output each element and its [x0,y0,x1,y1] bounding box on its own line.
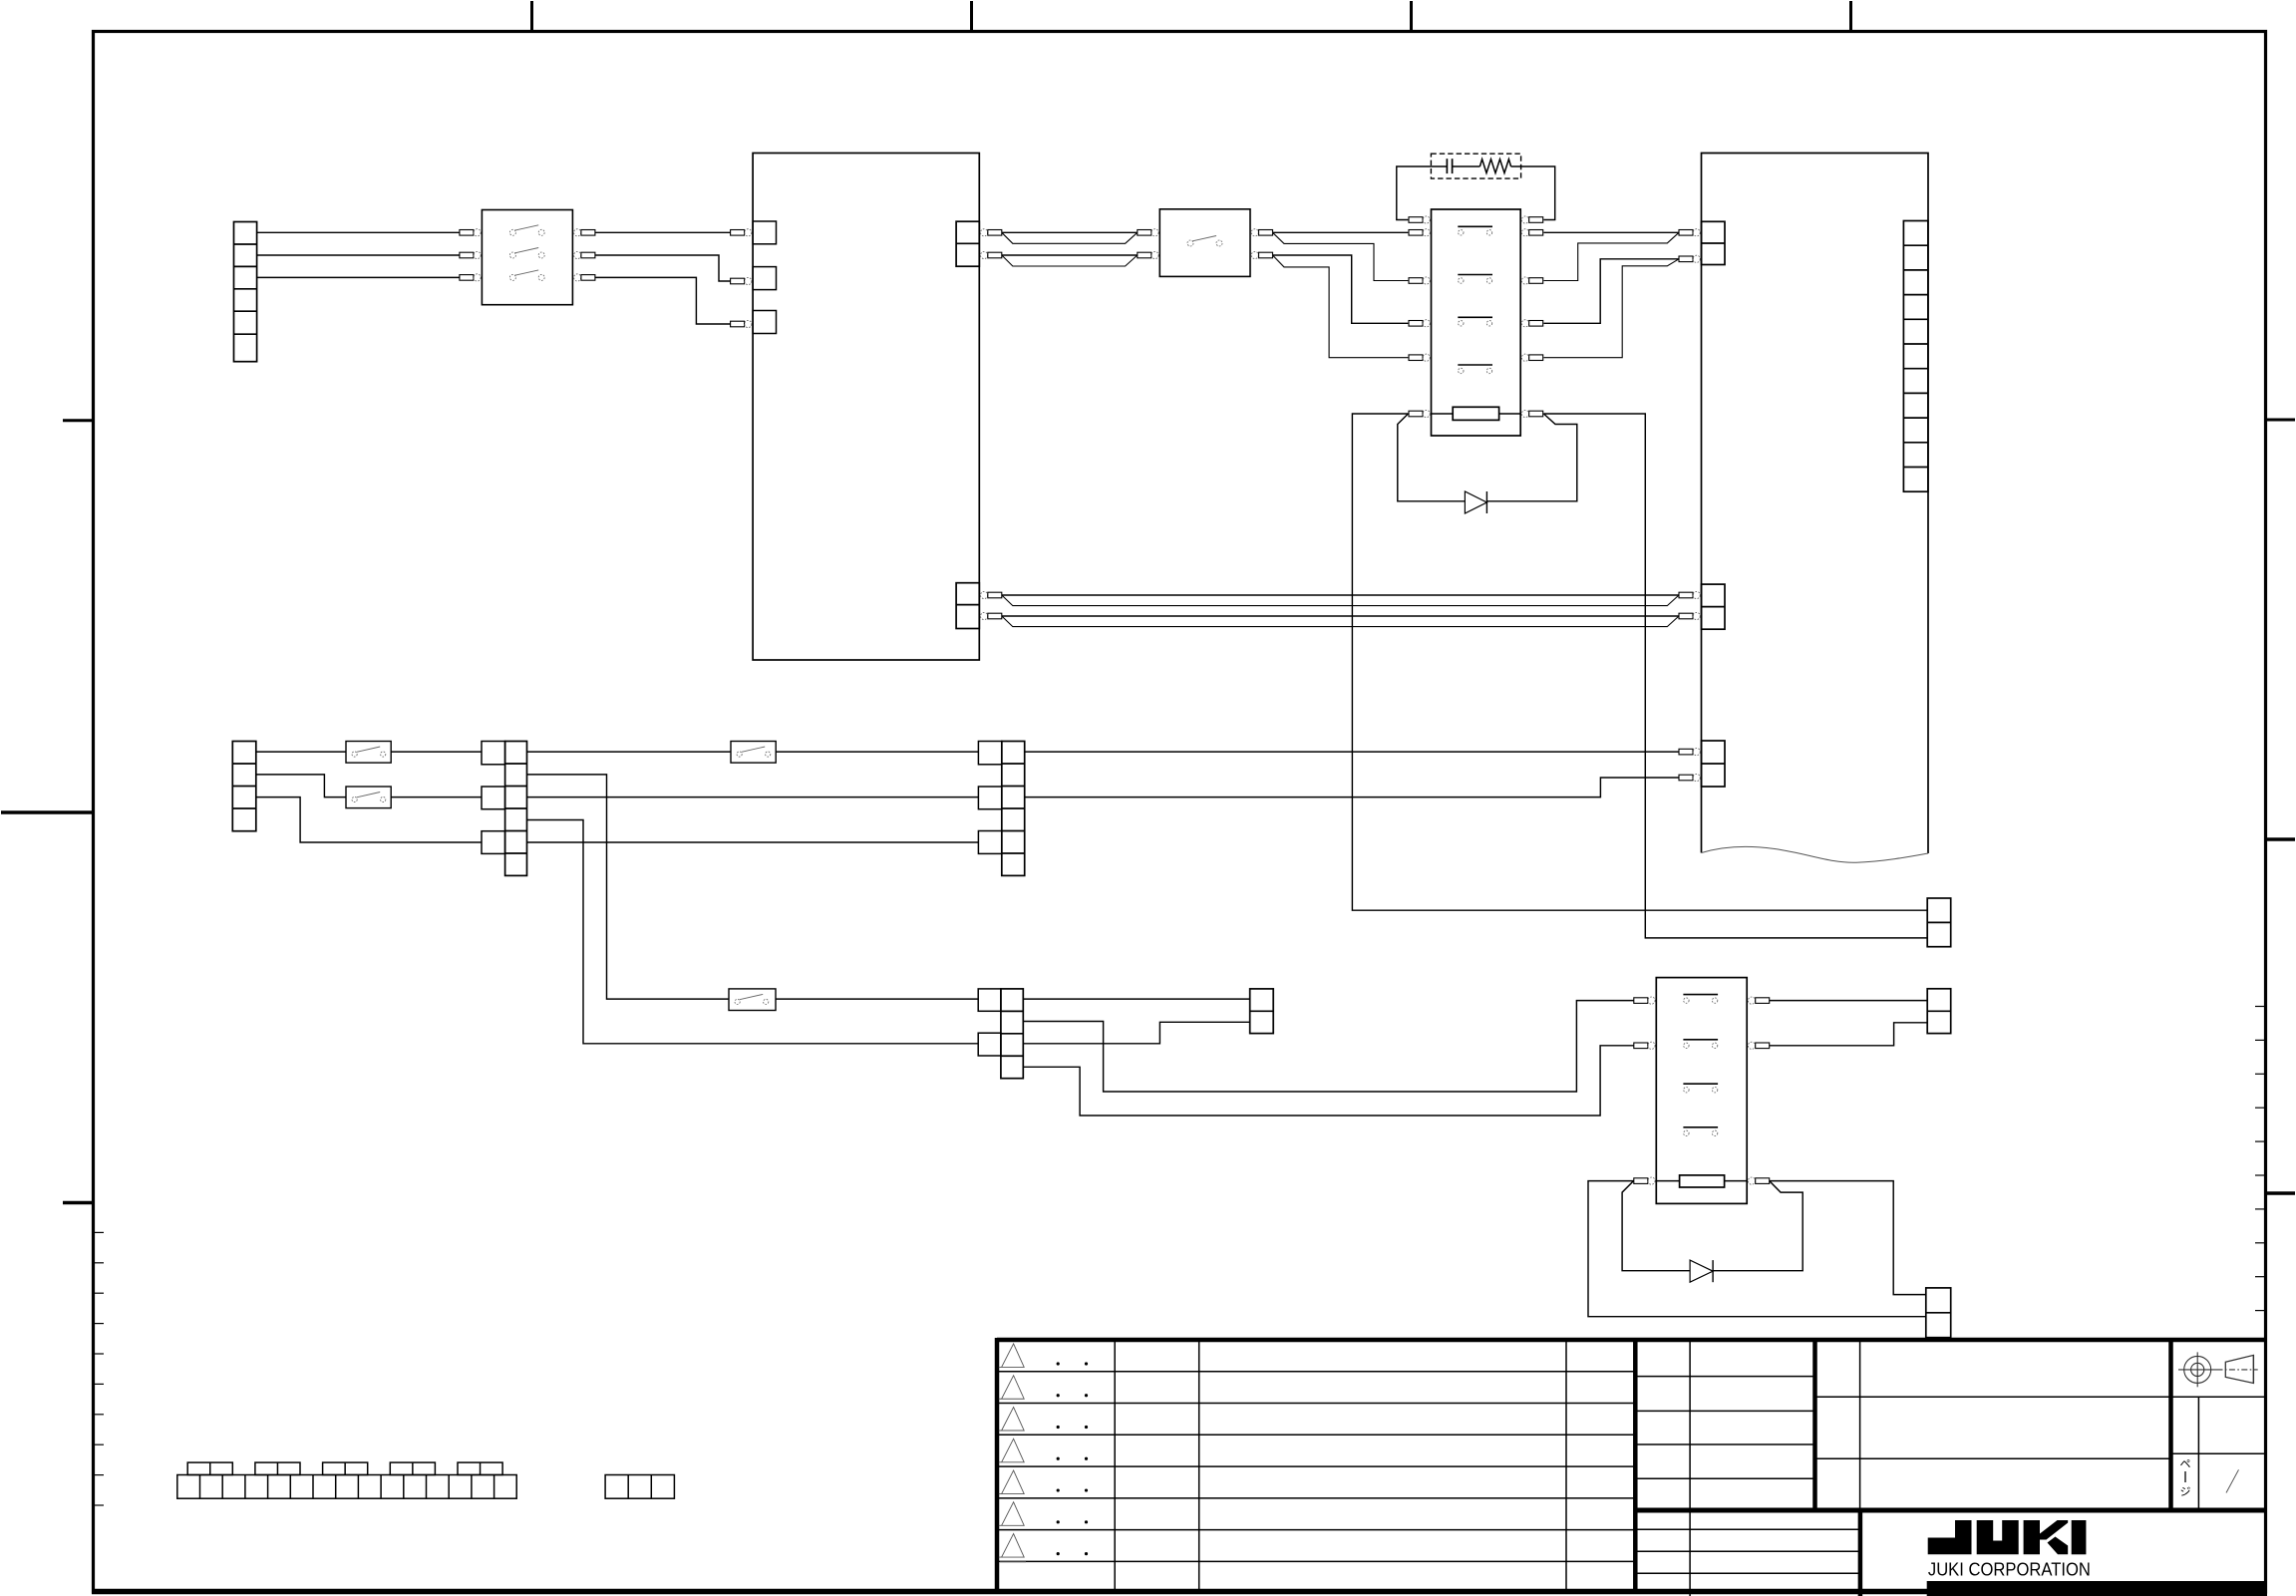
crimp terminal SW1 out 2 [574,251,581,258]
junction block DB1 cell A [482,742,505,765]
connector C6 [1926,1288,1951,1338]
PSC connector CN2 [956,221,979,266]
title block date grid [1635,1376,1814,1378]
svg-text:ペ: ペ [2180,1458,2191,1470]
SW1 pole 1 [509,229,515,235]
control box CTL [1702,154,1929,854]
crimp terminal RY1 pin4 L [1409,355,1423,361]
revision table grid [997,1371,1635,1373]
S4 contact [735,999,740,1004]
third angle projection symbol [2184,1356,2211,1383]
page slash [2226,1469,2239,1492]
crimp terminal CN2 pin2 [981,251,988,258]
resistor R1 [1479,160,1510,173]
junction block DB3 strip [1001,989,1023,1079]
crimp terminal CN2 pin1 [981,229,988,236]
frame tick right upper [2266,419,2295,422]
CTL connector CN4 [1702,221,1726,264]
snubber wire left [1397,166,1448,220]
crimp terminal RY2 pin2 L [1634,1043,1648,1049]
SW1 pole 3 [509,274,515,280]
crimp terminal CN6 pin2 [1679,775,1693,781]
wire RY2 pin1R to C5 top [1770,1000,1928,1002]
control box PSC [753,154,979,661]
crimp terminal CN3 pin2 [981,612,988,619]
crimp terminal SW1 in 1 [460,230,474,236]
connector C3 [1927,898,1951,947]
wire RY2 coil L to C6 bottom [1588,1181,1926,1317]
black bar [1927,1581,2267,1596]
spare terminal jumpers [187,1462,232,1474]
crimp terminal RY1 pin2 L [1409,278,1423,284]
junction block DB1 strip [505,742,527,876]
wire DB1-C to DB2-C [527,841,979,843]
title block main borders [997,1338,2265,1343]
wire SW1 to CN1 pin1 [595,231,731,233]
junction block DB2 strip [1002,742,1025,876]
wire SW2 to RY1 pin2 [1273,232,1409,280]
crimp terminal RY2 pin1 L [1634,998,1648,1004]
wire DB1-B to DB2-B [527,797,979,798]
RY2 contact 1 [1683,994,1718,996]
crimp terminal RY1 coil L [1409,411,1423,417]
CTL break line [1702,846,1929,862]
relay RY1 [1432,209,1521,436]
F2 contact [352,797,357,801]
junction block DB2 cell B [978,787,1001,809]
F1 contact [352,752,357,757]
wire DB3-4 to RY2 pin2 [1023,1046,1633,1116]
wire DB3-1 to C4 top [1023,998,1249,1000]
crimp terminal RY2 coil L [1634,1178,1648,1184]
revision triangles [999,1344,1024,1368]
frame centre tick right [2266,837,2295,840]
wire RY1 pin4R to CN4 [1543,259,1679,358]
crimp terminal CN5 pin2 [1679,613,1693,619]
PSC connector CN3 [956,583,979,629]
frame quarter tick left lower [63,1201,92,1204]
terminal block TB2 [232,742,255,831]
wire RY1 pin2R to CN4 [1543,232,1679,280]
wire DB2-B to CN6 pin2 [1025,778,1679,798]
cable run CN3-CN5 pair2 [1002,616,1679,627]
junction block DB2 cell C [978,831,1001,854]
junction block DB1 cell C [482,831,505,854]
wire SW2 to RY1 pin4 [1273,255,1409,358]
cable run CN2-SW2 pair2 [1002,255,1138,266]
ruler ticks left border [94,1231,104,1233]
crimp terminal CN1 pin3 [731,321,745,327]
crimp terminal SW1 out 1 [574,229,581,236]
crimp terminal SW2 in 2 [1138,252,1151,258]
spare terminal strip small [605,1475,674,1499]
ruler ticks right border [2255,1006,2265,1008]
PSC connector CN1 pin2 [753,267,776,290]
RY1 coil [1432,413,1454,415]
wire DB3-3 to C4 bottom [1023,1022,1249,1044]
PSC connector CN1 pin3 [753,311,776,334]
S3 contact [737,752,742,757]
cable run CN2-SW2 pair1 [1002,232,1138,243]
crimp terminal RY2 coil R [1748,1177,1755,1184]
frame fold tick top 1 [530,1,533,31]
crimp terminal CN1 pin2 [731,278,745,284]
RY1 contact 1 [1458,225,1492,227]
power switch SW1 [482,210,572,305]
switch S4 [729,989,776,1011]
crimp terminal SW2 out 2 [1251,251,1258,258]
wire TB1-1 to SW1 [257,231,461,233]
snubber wire right [1511,166,1555,220]
wire CN3-2 to CN5 [1002,615,1679,617]
crimp terminal SW2 out 1 [1251,229,1258,236]
crimp terminal CN5 pin1 [1679,592,1693,598]
crimp terminal CN6 pin1 [1679,749,1693,755]
wire DB1-4 to DB3-2 [527,820,979,1044]
crimp terminal CN4 pin2 [1679,256,1693,262]
terminal block TB1 [234,222,257,362]
crimp terminal CN4 pin1 [1679,230,1693,236]
switch SW2 [1159,209,1250,277]
svg-text:ジ: ジ [2180,1486,2191,1498]
wire DB1-2 to S4 [527,775,730,999]
RY2 contact 4 [1683,1126,1718,1128]
wire CN2-1 to SW2 [1002,231,1138,233]
wire DB3-2 to RY2 pin1 [1023,1001,1633,1092]
fuse F1 [346,742,391,764]
snubber dashed enclosure [1431,154,1520,178]
crimp terminal SW1 in 3 [460,275,474,281]
crimp terminal CN1 pin1 [731,230,745,236]
wire TB2-3 to DB1-C [256,798,482,842]
spare terminal strip row [177,1475,516,1499]
wire diode to RY1 coil R [1486,414,1576,501]
wire TB2-1 to F1 [256,751,346,753]
SW2 contact [1187,240,1193,246]
wire CN3-1 to CN5 [1002,594,1679,596]
title block name grid [1815,1396,2265,1398]
wire SW1 to CN1 pin2 [595,255,731,281]
junction block DB1 cell B [482,787,505,809]
wire RY2 pin2R to C5 bottom [1770,1023,1928,1046]
wire RY1 pin1R to CN4 [1543,231,1679,233]
frame fold tick top 4 [1849,1,1852,31]
CTL connector CN5 [1702,584,1726,629]
crimp terminal RY2 pin1 R [1748,997,1755,1004]
RY1 contact 4 [1458,364,1492,366]
page bottom border [92,1589,2267,1595]
junction block DB3 cell 2 [978,1033,1001,1056]
wire RY2 coil R to C6 top [1770,1181,1926,1295]
wire RY1 coil R to CN-C3 bottom [1543,414,1927,938]
wire CN2-2 to SW2 [1002,254,1138,256]
wire F2 to DB1-B [391,797,482,798]
wire TB2-2 to F2 [256,775,346,798]
diode D1 [1465,491,1486,513]
crimp terminal SW1 out 3 [574,274,581,281]
capacitor C1 [1446,159,1448,173]
crimp terminal RY1 pin3 L [1409,321,1423,327]
wire SW2 to RY1 pin3 [1273,255,1409,323]
junction block DB2 cell A [978,742,1001,765]
wire F1 to DB1-A [391,751,482,753]
crimp terminal RY2 pin2 R [1748,1042,1755,1049]
diode D2 [1690,1260,1713,1282]
wire RY1 coil L to CN-C3 top [1352,414,1927,910]
cable run CN3-CN5 pair1 [1002,595,1679,606]
RY2 coil [1656,1180,1679,1182]
wire RY1 pin3R to CN4 [1543,259,1679,324]
RY1 contact 2 [1458,274,1492,276]
wire TB1-2 to SW1 [257,254,461,256]
connector C4 [1250,989,1274,1034]
RY1 contact 3 [1458,316,1492,318]
wire DB1-A to S3 [527,751,732,753]
JUKI logo [1928,1520,1972,1554]
wire RY2 coil L to diode D2 [1622,1181,1690,1271]
CTL terminal strip [1903,221,1928,492]
wire S4 to DB3-1 [776,998,978,1000]
RY2 contact 3 [1683,1083,1718,1085]
crimp terminal RY1 snubber R [1521,216,1528,223]
frame fold tick top 2 [970,1,973,31]
connector C5 [1927,989,1951,1034]
frame quarter tick left upper [63,419,92,422]
crimp terminal SW1 in 2 [460,252,474,258]
crimp terminal RY1 coil R [1521,410,1528,417]
crimp terminal RY1 pin2 R [1521,277,1528,284]
frame fold tick top 3 [1410,1,1413,31]
junction block DB3 cell 1 [978,989,1001,1011]
crimp terminal RY1 snubber L [1409,217,1423,223]
SW1 pole 2 [509,252,515,258]
wire TB1-3 to SW1 [257,276,461,278]
svg-text:JUKI CORPORATION: JUKI CORPORATION [1928,1559,2091,1580]
wire SW1 to CN1 pin3 [595,277,731,324]
crimp terminal RY1 pin3 R [1521,320,1528,327]
PSC connector CN1 pin1 [753,221,776,244]
RY2 contact 2 [1683,1039,1718,1041]
wire RY1 coil L to diode [1398,414,1466,501]
frame centre tick left [1,810,92,813]
switch S3 [731,742,776,764]
crimp terminal RY1 pin1 L [1409,230,1423,236]
crimp terminal CN3 pin1 [981,591,988,598]
frame tick right lower [2266,1191,2295,1194]
wire diode D2 to RY2 coil R [1713,1181,1803,1271]
CTL connector CN6 [1702,741,1726,787]
crimp terminal RY1 pin4 R [1521,354,1528,361]
crimp terminal RY1 pin1 R [1521,229,1528,236]
wire DB2-A to CN6 pin1 [1025,751,1679,753]
wire SW2 to RY1 pin1 [1273,231,1409,233]
fuse F2 [346,787,391,808]
relay RY2 [1656,978,1747,1204]
wire S3 to DB2-A [776,751,978,753]
crimp terminal SW2 in 1 [1138,230,1151,236]
